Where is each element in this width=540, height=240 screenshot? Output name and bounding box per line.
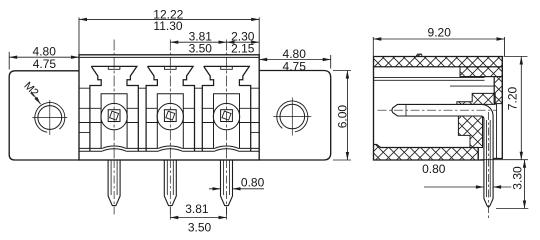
svg-text:6.00: 6.00 [336,105,350,129]
svg-text:3.50: 3.50 [188,220,212,234]
svg-text:0.80: 0.80 [241,175,265,189]
svg-text:0.80: 0.80 [422,162,446,176]
svg-text:11.30: 11.30 [153,19,182,33]
svg-text:4.75: 4.75 [283,59,307,73]
svg-text:3.50: 3.50 [189,42,213,56]
svg-text:3.81: 3.81 [185,202,209,216]
svg-text:2.15: 2.15 [231,42,255,56]
svg-text:3.30: 3.30 [510,166,524,190]
svg-text:7.20: 7.20 [505,86,519,110]
svg-text:4.75: 4.75 [33,57,57,71]
svg-text:9.20: 9.20 [428,25,452,39]
